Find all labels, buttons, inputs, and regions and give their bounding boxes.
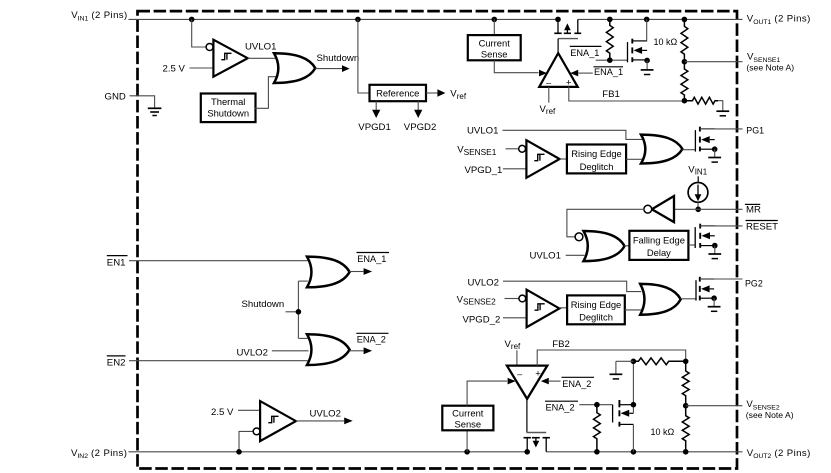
svg-text:ENA_1: ENA_1 <box>570 48 599 58</box>
comparator U2 (PG1) <box>526 140 559 178</box>
node ENA_1 resistor junction <box>607 57 613 63</box>
comparator U1 (UVLO1) <box>213 40 247 77</box>
label UVLO1 output <box>245 41 276 52</box>
svg-text:2.5 V: 2.5 V <box>163 64 186 75</box>
or-gate G3 (PG1) <box>641 135 682 164</box>
wire VIN1 to Current Sense 1 <box>493 19 495 35</box>
or-gate G0 (Shutdown) <box>274 53 315 83</box>
label VPGD_2 <box>463 314 501 325</box>
pin label MR <box>745 204 761 215</box>
node M1 source junction <box>644 58 650 64</box>
ground at M2 source <box>708 149 721 162</box>
pin label VOUT1 (2 Pins) <box>747 14 811 26</box>
svg-text:VPGD_2: VPGD_2 <box>463 314 501 325</box>
wire VIN1 to comparator U1 inverting input <box>192 19 206 47</box>
node VIN1 rail at pass-FET source <box>555 17 561 23</box>
node M4 source junction <box>711 295 717 301</box>
wire Current Sense 1 to error amp A1 <box>494 60 547 76</box>
wire VPGD2 output arrow <box>414 101 422 118</box>
label Shutdown <box>317 53 360 64</box>
node VOUT1 rail junction R1 <box>607 17 613 23</box>
svg-text:VSENSE1: VSENSE1 <box>457 145 497 157</box>
ground at M3 source <box>708 246 721 259</box>
wire PG1 drain to pin <box>700 128 743 130</box>
wire VSENSE2 to comparator U3 <box>505 298 519 300</box>
node FB1 junction <box>682 98 688 104</box>
wire Deglitch 2 to OR gate G5 <box>625 309 641 311</box>
wire VPGD_1 to comparator U2 <box>503 168 526 170</box>
node FB2 junction <box>683 359 689 365</box>
svg-text:Sense: Sense <box>455 419 482 430</box>
svg-text:PG2: PG2 <box>745 279 763 289</box>
wire inverter I2 output to NOR gate G4 <box>567 209 644 237</box>
label VSENSE2 input <box>457 294 497 306</box>
label ENA_2 amp input <box>562 377 595 389</box>
label ENA_2 output <box>356 333 388 344</box>
svg-text:Deglitch: Deglitch <box>579 312 613 323</box>
pin label VSENSE1 <box>746 51 794 72</box>
pin label PG1 <box>746 125 764 135</box>
svg-text:10 kΩ: 10 kΩ <box>654 37 678 47</box>
pin label EN2 <box>107 356 126 369</box>
svg-text:MR: MR <box>746 205 761 216</box>
or-gate G1 (ENA_1) <box>307 257 350 288</box>
svg-text:ENA_2: ENA_2 <box>546 403 575 413</box>
transistor M3 RESET open-drain FET <box>695 224 715 248</box>
resistor R5 10k pull (ENA_2 node to VOUT2) <box>594 405 601 452</box>
svg-text:Sense: Sense <box>481 48 508 59</box>
comparator U4 (UVLO2) <box>260 401 296 441</box>
svg-text:Thermal: Thermal <box>211 96 245 107</box>
node MR junction <box>695 207 701 213</box>
ground at M1 source <box>641 60 654 74</box>
wire M5 drain to VOUT2 <box>632 424 634 451</box>
op-amp A2 error amplifier 2 <box>507 366 547 399</box>
block Reference <box>370 85 427 101</box>
block Current Sense 2 <box>442 406 493 431</box>
svg-text:UVLO1: UVLO1 <box>245 41 276 52</box>
node VOUT2 rail junction divider <box>683 449 689 455</box>
node VOUT2 rail junction R5 <box>594 449 600 455</box>
node VOUT1 rail junction discharge FET drain <box>644 17 650 23</box>
node VSENSE1 tap <box>682 59 688 65</box>
transistor Q1 pass FET (VIN1 to VOUT1) <box>554 19 581 53</box>
wire G4 to Falling Edge Delay <box>625 245 630 247</box>
svg-text:Falling Edge: Falling Edge <box>633 235 685 246</box>
svg-text:EN2: EN2 <box>107 357 126 368</box>
svg-text:UVLO1: UVLO1 <box>530 250 561 261</box>
node VIN2 rail junction to Current Sense 2 <box>464 449 470 455</box>
wire G2 output arrow ENA_2 <box>350 347 373 354</box>
block Falling Edge Delay <box>629 231 688 260</box>
resistor R4 to ground (horizontal) <box>684 97 722 110</box>
wire UVLO2 to OR gate G2 <box>272 350 309 352</box>
wire VSENSE1 to pin <box>684 61 742 63</box>
svg-text:–: – <box>517 369 522 379</box>
svg-text:ENA_1: ENA_1 <box>594 67 623 77</box>
wire Vref output arrow <box>426 89 445 97</box>
label VPGD_1 <box>465 165 503 176</box>
transistor M4 PG2 open-drain FET <box>696 277 714 301</box>
pin label VIN2 (2 Pins) <box>71 448 127 460</box>
wire VIN2 to comparator U4 inverting input <box>239 431 253 451</box>
label UVLO2 (enable logic) <box>237 347 268 358</box>
svg-text:FB2: FB2 <box>552 339 570 350</box>
svg-text:Delay: Delay <box>647 247 671 258</box>
block Current Sense 1 <box>468 35 521 60</box>
inverter I2 (MR) <box>652 196 674 222</box>
label ENA_1 at pass gate <box>570 46 602 58</box>
label ENA_2 at discharge gate <box>545 401 578 412</box>
label 2.5 V <box>163 64 186 75</box>
ground at R4 <box>716 111 729 116</box>
svg-text:ENA_2: ENA_2 <box>562 379 591 389</box>
label 10 kOhm top <box>654 37 678 47</box>
pin label EN1 <box>107 256 128 269</box>
svg-text:Rising Edge: Rising Edge <box>571 148 622 159</box>
wire GND <box>130 96 155 108</box>
svg-text:VPGD_1: VPGD_1 <box>465 165 503 176</box>
resistor R2 divider upper (VOUT1) <box>681 19 688 61</box>
svg-text:Deglitch: Deglitch <box>580 161 614 172</box>
wire FB2 from amp A2 to divider <box>537 350 686 366</box>
wire VIN1 rail <box>129 18 559 20</box>
svg-text:(see Note A): (see Note A) <box>746 63 794 73</box>
label ENA_1 amp input <box>594 67 624 77</box>
comparator U3 (PG2) <box>527 290 560 328</box>
wire Vref to amp A1 inverting input <box>548 87 550 103</box>
node VIN1 rail junction to Current Sense <box>492 17 498 23</box>
transistor M2 PG1 open-drain FET <box>695 127 714 152</box>
wire Shutdown output arrow <box>315 65 349 72</box>
or-gate G4 (reset logic) <box>584 231 625 261</box>
resistor R3 divider lower <box>681 62 688 101</box>
label FB1 <box>602 89 620 100</box>
block Rising Edge Deglitch 2 <box>567 295 625 324</box>
node VIN2 rail at pass-FET source <box>524 449 530 455</box>
svg-text:–: – <box>546 78 551 88</box>
wire 2.5V to comparator U4 <box>238 409 260 411</box>
dashed package border <box>138 11 738 468</box>
label UVLO1 (reset chain) <box>530 250 561 261</box>
wire U4 output arrow UVLO2 <box>296 418 353 425</box>
wire FB1 from amp A1 to divider <box>569 87 685 101</box>
label 10 kOhm bottom <box>651 427 675 437</box>
svg-text:10 kΩ: 10 kΩ <box>651 427 675 437</box>
label VIN1 at current source <box>688 164 707 176</box>
svg-text:UVLO1: UVLO1 <box>467 126 498 137</box>
resistor R1 10k pull (VOUT1 to ENA_1 node) <box>606 19 613 60</box>
wire ground node line <box>616 360 634 362</box>
wire Thermal Shutdown to OR gate G0 <box>255 77 279 109</box>
node ground-line junction <box>631 359 637 365</box>
svg-text:UVLO2: UVLO2 <box>468 277 499 288</box>
svg-text:Current: Current <box>452 408 484 419</box>
node M5 source junction <box>631 402 637 408</box>
node VIN1 rail junction to UVLO1 comparator <box>189 17 195 23</box>
wire G5 to PG2 FET gate <box>681 298 696 300</box>
wire M1 drain to VOUT1 <box>646 19 648 41</box>
or-gate G2 (ENA_2) <box>307 334 350 365</box>
current source I1 (MR pull-up) <box>688 176 708 202</box>
ground at discharge node 2 <box>610 361 623 379</box>
label UVLO2 output <box>310 409 341 420</box>
node VIN1 rail junction to Reference <box>355 17 361 23</box>
node M2 source junction <box>712 146 718 152</box>
svg-text:VPGD1: VPGD1 <box>358 122 391 133</box>
wire U1 output to OR gate G0 <box>248 57 275 59</box>
svg-text:Shutdown: Shutdown <box>317 53 360 64</box>
wire G3 to PG1 FET gate <box>682 149 695 151</box>
wire VIN2 rail <box>129 451 528 453</box>
block Thermal Shutdown <box>201 94 256 123</box>
label VSENSE1 input <box>457 145 497 157</box>
label Vref <box>450 89 467 101</box>
svg-text:ENA_1: ENA_1 <box>357 254 386 264</box>
comparator U2 input bubble <box>519 145 526 152</box>
node VOUT2 rail junction discharge FET drain <box>631 449 637 455</box>
wire VIN1 to Reference <box>358 19 370 93</box>
svg-text:FB1: FB1 <box>602 89 620 100</box>
wire G1 output arrow ENA_1 <box>350 268 373 275</box>
wire Shutdown net to both OR gates <box>286 281 308 338</box>
label 2.5 V (bottom) <box>211 407 234 418</box>
wire RESET drain to pin <box>700 225 742 227</box>
wire VIN2 to Current Sense 2 <box>466 430 468 452</box>
wire U3 to Rising Edge Deglitch 2 <box>559 307 567 309</box>
label UVLO2 (PG2 chain) <box>468 277 499 288</box>
label Shutdown (enable logic) <box>242 299 285 310</box>
or-gate G5 (PG2) <box>640 284 681 315</box>
label VPGD1 <box>358 122 391 133</box>
wire MR line <box>651 208 742 210</box>
svg-text:UVLO2: UVLO2 <box>237 347 268 358</box>
svg-text:ENA_2: ENA_2 <box>357 335 386 345</box>
wire PG2 drain to pin <box>700 278 743 280</box>
node ENA_2 resistor junction <box>594 402 600 408</box>
svg-text:2.5 V: 2.5 V <box>211 407 234 418</box>
comparator U1 input bubble <box>206 44 213 51</box>
pin label VIN1 (2 Pins) <box>71 10 127 22</box>
wire Deglitch 1 to OR gate G3 <box>626 158 642 160</box>
wire ENA_2 into amp A2 right side <box>541 378 561 385</box>
svg-text:VPGD2: VPGD2 <box>404 122 437 133</box>
resistor R6 (ground node to FB2 node, horizontal) <box>633 358 685 365</box>
wire 2.5V to comparator U1 <box>190 67 214 69</box>
label Vref above amp A2 <box>505 339 522 351</box>
block Rising Edge Deglitch 1 <box>567 145 626 174</box>
svg-text:+: + <box>535 369 541 380</box>
wire UVLO1 to G4 <box>566 254 585 256</box>
svg-text:UVLO2: UVLO2 <box>310 409 341 420</box>
svg-text:PG1: PG1 <box>746 125 764 135</box>
pin label VOUT2 (2 Pins) <box>747 448 811 460</box>
svg-text:EN1: EN1 <box>107 257 126 268</box>
wire VOUT2 rail <box>546 451 742 453</box>
resistor R7 divider upper (FB2 to VSENSE2) <box>682 361 689 405</box>
wire U2 to Rising Edge Deglitch 1 <box>560 158 567 160</box>
wire VOUT1 rail <box>578 18 743 20</box>
wire ENA_1 node to gate of M1 <box>596 59 628 61</box>
svg-text:Shutdown: Shutdown <box>242 299 285 310</box>
svg-text:(see Note A): (see Note A) <box>746 410 794 420</box>
label ENA_1 output <box>357 253 390 264</box>
svg-text:GND: GND <box>105 92 126 103</box>
label UVLO1 (PG1 chain) <box>467 126 498 137</box>
svg-text:VSENSE2: VSENSE2 <box>457 294 497 306</box>
wire ENA_2 to gate of M5 <box>579 404 612 406</box>
node Shutdown junction <box>296 309 302 315</box>
resistor R8 divider lower (VSENSE2 to VOUT2) <box>682 406 689 452</box>
pin label GND <box>105 92 126 103</box>
svg-text:+: + <box>566 77 572 88</box>
wire VSENSE2 to pin <box>686 405 743 407</box>
wire UVLO1 to OR gate G3 <box>503 130 643 139</box>
transistor M1 output discharge FET <box>628 39 648 63</box>
wire VSENSE1 to comparator U2 <box>506 148 519 150</box>
inverter I2 output bubble <box>644 205 652 213</box>
wire VPGD_2 to comparator U3 <box>503 317 527 319</box>
wire current source to MR line <box>697 202 699 209</box>
nor-gate G4 input bubble <box>575 233 583 241</box>
wire ENA_1 into amp A1 right side <box>570 70 593 77</box>
node VSENSE2 tap <box>683 403 689 409</box>
svg-text:Reference: Reference <box>376 88 419 99</box>
svg-text:Shutdown: Shutdown <box>207 107 249 118</box>
svg-text:RESET: RESET <box>746 221 778 232</box>
label VPGD2 <box>404 122 437 133</box>
pin label PG2 <box>745 279 763 289</box>
ground GND symbol <box>148 108 162 115</box>
wire Vref to amp A2 inverting input <box>516 350 518 365</box>
pin label RESET <box>746 221 779 233</box>
wire M5 source to ground node <box>632 361 634 413</box>
wire UVLO2 to OR gate G5 <box>503 281 641 291</box>
node VOUT1 rail junction divider <box>682 17 688 23</box>
node VIN2 rail junction to UVLO2 comparator <box>236 449 242 455</box>
wire Current Sense 2 to error amp A2 <box>467 378 515 406</box>
wire EN2 to OR gate G2 <box>129 360 308 362</box>
wire VPGD1 output arrow <box>372 101 380 118</box>
comparator U3 input bubble <box>519 295 526 302</box>
comparator U4 input bubble <box>253 428 260 435</box>
wire EN1 to OR gate G1 <box>129 260 308 262</box>
ground at M4 source <box>708 298 721 311</box>
node M3 source junction <box>712 243 718 249</box>
svg-text:Current: Current <box>479 37 511 48</box>
transistor Q2 pass FET (VIN2 to VOUT2) <box>524 399 550 452</box>
wire Falling Edge Delay to RESET FET gate <box>688 244 695 246</box>
pin label VSENSE2 <box>746 399 794 420</box>
transistor M5 output discharge FET <box>613 400 634 427</box>
op-amp A1 error amplifier 1 <box>539 53 578 88</box>
svg-text:Rising Edge: Rising Edge <box>571 299 622 310</box>
label Vref below amp A1 <box>540 104 557 116</box>
label FB2 <box>552 339 570 350</box>
